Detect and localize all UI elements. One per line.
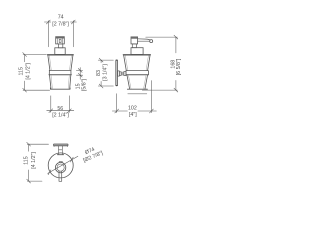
wall plate side bbox=[116, 60, 118, 86]
holder shoulder front bbox=[48, 54, 74, 56]
diameter leader line bbox=[48, 156, 78, 175]
svg-text:[4 1/2"]: [4 1/2"] bbox=[25, 62, 31, 79]
pump spout side bbox=[138, 39, 151, 41]
dimension 74 top bbox=[44, 20, 76, 47]
svg-text:[4"]: [4"] bbox=[129, 112, 137, 118]
svg-text:[4 1/2"]: [4 1/2"] bbox=[31, 152, 37, 169]
glass circle top view bbox=[48, 153, 73, 178]
dimension 115 left front bbox=[23, 53, 50, 93]
spout top view bbox=[59, 171, 62, 181]
pump collar front bbox=[55, 48, 65, 55]
dimension 56 bottom front bbox=[47, 96, 74, 113]
dimension 102 bottom side bbox=[112, 81, 156, 113]
pump neck side bbox=[132, 44, 136, 48]
svg-text:56: 56 bbox=[57, 106, 63, 112]
svg-text:[5/8"]: [5/8"] bbox=[82, 78, 88, 91]
pump head slot bar top view bbox=[59, 161, 63, 162]
svg-text:83: 83 bbox=[96, 70, 102, 76]
pump neck front bbox=[58, 44, 62, 48]
svg-text:102: 102 bbox=[128, 106, 137, 112]
wall plate top view bbox=[54, 144, 69, 147]
dimension 168 right side bbox=[142, 35, 178, 92]
glass upper taper side bbox=[124, 56, 150, 71]
svg-text:[3 1/4"]: [3 1/4"] bbox=[102, 64, 108, 81]
svg-text:115: 115 bbox=[18, 67, 24, 75]
pump collar side bbox=[131, 48, 143, 55]
glass bottom front bbox=[50, 88, 70, 89]
svg-text:115: 115 bbox=[24, 156, 30, 164]
mounting post top view bbox=[59, 146, 63, 155]
holder shoulder side bbox=[123, 54, 150, 56]
glass bottom side bbox=[127, 88, 147, 90]
base shadow line side bbox=[128, 93, 147, 95]
svg-text:[2 7/8"]: [2 7/8"] bbox=[52, 21, 69, 27]
glass upper taper front bbox=[48, 56, 73, 71]
dimension 15 right front bbox=[76, 68, 82, 80]
svg-text:[2 1/4"]: [2 1/4"] bbox=[52, 113, 69, 119]
pump head circles top view bbox=[55, 162, 65, 172]
pump head front bbox=[56, 37, 65, 44]
svg-text:[6 5/8"]: [6 5/8"] bbox=[176, 58, 182, 75]
svg-text:74: 74 bbox=[58, 15, 64, 21]
dimension 115 left top view bbox=[27, 142, 49, 183]
dimension 83 left side bbox=[98, 58, 113, 88]
holder ring slab side bbox=[126, 71, 148, 75]
holder ring band front bbox=[49, 70, 71, 74]
pump spout tip circle bbox=[150, 40, 153, 43]
glass lower taper side bbox=[127, 75, 148, 88]
mounting post side bbox=[118, 71, 127, 76]
glass lower taper front bbox=[50, 75, 71, 89]
pump head side bbox=[131, 37, 138, 44]
ring clamp top view bbox=[57, 154, 63, 156]
